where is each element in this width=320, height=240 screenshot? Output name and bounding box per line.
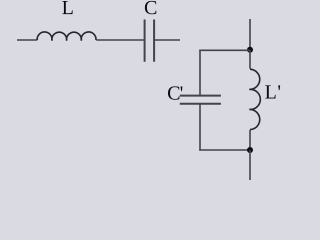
wire bottom rail [199, 149, 250, 151]
node top junction [247, 47, 253, 53]
wire inductor bottom lead [249, 130, 251, 150]
label C' [168, 86, 182, 99]
inductor L' [249, 69, 260, 129]
label C [145, 1, 156, 14]
capacitor C [145, 20, 155, 62]
inductor L [37, 32, 96, 41]
wire left lead [17, 39, 37, 41]
wire bottom stub [249, 150, 251, 180]
node bottom junction [247, 147, 253, 153]
wire right lead of series branch [155, 39, 180, 41]
wire left branch upper [199, 50, 201, 95]
capacitor C' [180, 96, 221, 104]
wire top stub [249, 19, 251, 49]
wire top rail [199, 49, 250, 51]
wire inductor top lead [249, 50, 251, 69]
wire between L and C [96, 39, 143, 41]
label L [62, 1, 72, 14]
label L' [265, 85, 280, 98]
wire left branch lower [199, 104, 201, 150]
